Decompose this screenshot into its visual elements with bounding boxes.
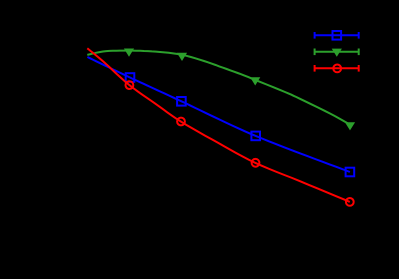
legend blue errorbar sample line bbox=[314, 34, 359, 36]
legend green right cap bbox=[358, 49, 360, 56]
red circle marker 2 bbox=[177, 118, 185, 126]
legend red circle marker bbox=[333, 65, 341, 73]
blue square marker 3 bbox=[251, 132, 260, 141]
blue curve (series with square markers) bbox=[87, 57, 350, 172]
legend red errorbar sample line bbox=[314, 67, 359, 69]
green triangle marker 1 bbox=[124, 49, 134, 57]
blue square marker 4 bbox=[346, 168, 355, 177]
legend blue left cap bbox=[314, 32, 316, 39]
green triangle marker 4 bbox=[345, 122, 355, 130]
green triangle marker 2 bbox=[177, 53, 187, 61]
green triangle marker 3 bbox=[250, 77, 260, 85]
red circle marker 1 bbox=[125, 81, 133, 89]
legend red left cap bbox=[314, 65, 316, 72]
legend green errorbar sample line bbox=[314, 51, 359, 53]
legend blue square marker bbox=[333, 31, 342, 40]
legend red right cap bbox=[358, 65, 360, 72]
blue square marker 1 bbox=[126, 73, 135, 82]
red circle marker 4 bbox=[346, 198, 354, 206]
legend green left cap bbox=[314, 49, 316, 56]
red circle marker 3 bbox=[252, 159, 260, 167]
blue square marker 2 bbox=[177, 97, 186, 106]
green curve (series with down-triangle markers) bbox=[87, 51, 350, 125]
legend green triangle marker bbox=[332, 49, 342, 57]
red curve (series with circle markers) bbox=[87, 48, 350, 202]
legend blue right cap bbox=[358, 32, 360, 39]
